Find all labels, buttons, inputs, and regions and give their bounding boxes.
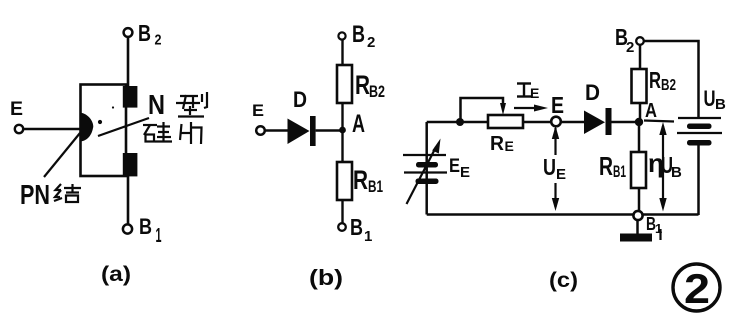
svg-text:E: E — [556, 166, 566, 183]
svg-text:2: 2 — [684, 265, 710, 312]
wire RE to node E — [523, 121, 552, 124]
svg-text:E: E — [449, 156, 460, 177]
svg-text:E: E — [460, 164, 470, 181]
terminal B2 circle (c) — [636, 37, 644, 45]
label UE — [543, 154, 566, 183]
svg-text:R: R — [355, 70, 370, 100]
EE adjust arrow line — [407, 147, 437, 204]
svg-text:(a): (a) — [101, 263, 131, 286]
leader line to N-type bar — [98, 118, 149, 136]
resistor RB1 (c) — [631, 152, 646, 188]
svg-text:U: U — [704, 86, 716, 111]
terminal E circle (b) — [256, 126, 265, 135]
resistor RB2 (c) — [632, 69, 647, 103]
svg-text:B1: B1 — [368, 177, 383, 196]
top right wire B2 to UB battery — [644, 41, 699, 117]
svg-text:R: R — [490, 133, 505, 155]
resistor RB1 (b) — [337, 162, 352, 200]
svg-text:2: 2 — [626, 39, 634, 56]
wire B2 to RB2 — [341, 40, 343, 65]
terminal B1 circle (b) — [338, 223, 346, 231]
battery UB plate long 1 — [678, 117, 721, 119]
terminal B1 circle (c) — [633, 211, 642, 220]
bottom rail wire — [427, 213, 699, 216]
terminal B2 circle (b) — [338, 32, 345, 39]
battery UB plate short thick 2 — [687, 140, 712, 146]
wire RB2 to node A — [639, 103, 642, 122]
battery EE plate long 1 — [403, 154, 446, 156]
emitter PN junction bump — [80, 113, 93, 142]
label B2 (a) — [138, 20, 162, 49]
label UB — [704, 86, 727, 113]
svg-text:E: E — [10, 99, 23, 120]
battery EE plate long 2 — [404, 171, 447, 173]
node junction left — [456, 118, 464, 126]
wire top rail EE to RE — [427, 121, 488, 124]
wire B2 terminal to top contact — [127, 37, 130, 88]
svg-text:E: E — [551, 92, 564, 118]
label B2 (c) — [615, 24, 634, 56]
svg-text:R: R — [649, 67, 661, 93]
wire B2 to RB2 — [639, 45, 642, 69]
battery EE plate short thick 1 — [416, 162, 438, 168]
svg-text:B2: B2 — [661, 77, 676, 94]
terminal E circle (a) — [15, 125, 23, 133]
svg-text:(c): (c) — [549, 269, 578, 292]
label RB1 (b) — [353, 165, 383, 196]
wire RB2 to node A — [341, 103, 343, 132]
label B2 (b) — [352, 21, 375, 51]
label B1 (b) — [350, 214, 372, 245]
svg-text:B: B — [352, 21, 365, 48]
wire RB1 to B1 — [638, 188, 641, 212]
wire node A to RB1 — [638, 122, 641, 152]
svg-text:2: 2 — [155, 32, 162, 49]
svg-text:B: B — [671, 164, 682, 181]
current arrow IE — [514, 107, 538, 109]
wire diode to node A — [612, 121, 641, 124]
eta-UB arrowhead up — [659, 122, 666, 135]
label EE — [449, 156, 470, 181]
diode D (c) cathode bar — [606, 108, 612, 135]
svg-text:R: R — [353, 165, 368, 195]
dot inside bar — [98, 120, 102, 124]
terminal B1 circle (a) — [123, 224, 132, 233]
resistor RE — [488, 115, 523, 128]
svg-text:U: U — [543, 154, 556, 180]
svg-text:1: 1 — [364, 228, 372, 245]
svg-text:(b): (b) — [309, 265, 343, 290]
leader line to PN junction — [44, 133, 80, 177]
hanzi 片 — [180, 122, 202, 144]
battery UB plate long 2 — [677, 132, 722, 134]
EE adjust arrowhead — [432, 139, 440, 154]
svg-text:B: B — [350, 214, 363, 240]
ground bar — [620, 234, 652, 242]
label B1 (a) — [139, 214, 162, 247]
wire E to diode — [265, 129, 288, 131]
svg-text:E: E — [505, 138, 514, 154]
diode D (b) cathode bar — [310, 116, 316, 146]
battery EE plate short thick 2 — [416, 179, 439, 185]
svg-text:D: D — [293, 87, 307, 112]
svg-text:B: B — [715, 96, 726, 113]
node E circle (c) — [551, 117, 561, 127]
wire node A to RB1 — [341, 130, 343, 162]
node A dot (c) — [635, 118, 643, 126]
wiper arrowhead onto RE — [500, 103, 506, 115]
hanzi 结 — [54, 184, 81, 202]
svg-text:D: D — [585, 80, 600, 105]
node A dot (b) — [339, 127, 346, 134]
svg-text:E: E — [252, 101, 264, 120]
label RE — [490, 133, 514, 155]
label RB2 (c) — [649, 67, 676, 94]
label RB2 (b) — [355, 70, 385, 101]
diode D (c) triangle — [584, 111, 605, 135]
figure number circle 2 — [673, 264, 720, 311]
hanzi 硅 — [143, 122, 172, 142]
label B1 (c) — [646, 214, 662, 236]
svg-text:N: N — [148, 89, 165, 120]
speck in bar — [112, 106, 114, 108]
base contact B2 (top, filled) — [123, 86, 138, 108]
eta-UB arrowhead down — [659, 198, 666, 212]
UE arrowhead down — [552, 198, 559, 211]
wire UB battery to bottom rail — [697, 145, 700, 215]
wire E to diode — [561, 121, 585, 124]
diode D (b) triangle — [288, 119, 310, 145]
wire diode to node A — [316, 129, 343, 131]
N-type silicon bar body — [81, 85, 127, 177]
battery UB plate short thick 1 — [687, 124, 712, 130]
base contact B1 (bottom, filled) — [123, 153, 138, 176]
svg-text:E: E — [530, 85, 539, 101]
eta-UB arrow line — [662, 126, 664, 206]
UE arrow lower segment — [554, 183, 556, 207]
svg-text:1: 1 — [156, 225, 162, 247]
svg-text:A: A — [352, 110, 365, 138]
wire rheostat wiper loop — [461, 98, 504, 122]
hanzi 型 — [176, 92, 207, 117]
wire B1 to ground — [636, 220, 639, 234]
svg-text:B1: B1 — [613, 162, 626, 181]
UE arrowhead up — [552, 126, 559, 139]
stray mark below rail — [659, 229, 661, 240]
tick line at node A for eta-UB arrow — [644, 121, 674, 122]
current label IE (drawn serif I) — [517, 84, 531, 97]
svg-text:B: B — [139, 214, 152, 239]
wire bottom contact to B1 terminal — [127, 176, 130, 225]
battery EE riser wire — [425, 122, 428, 215]
wire E to emitter junction — [23, 128, 81, 131]
svg-text:B2: B2 — [369, 82, 385, 101]
terminal B2 circle (a) — [124, 28, 133, 37]
svg-text:2: 2 — [367, 34, 375, 51]
UE arrow upper segment — [554, 128, 556, 155]
svg-text:1: 1 — [655, 221, 662, 236]
svg-text:B: B — [138, 20, 151, 46]
label UB (divider) — [661, 152, 682, 181]
wire RB1 to B1 — [341, 200, 343, 223]
resistor RB2 (b) — [337, 65, 352, 103]
label RB1 (c) — [599, 151, 626, 181]
svg-text:R: R — [599, 151, 613, 181]
svg-text:PN: PN — [20, 179, 50, 210]
